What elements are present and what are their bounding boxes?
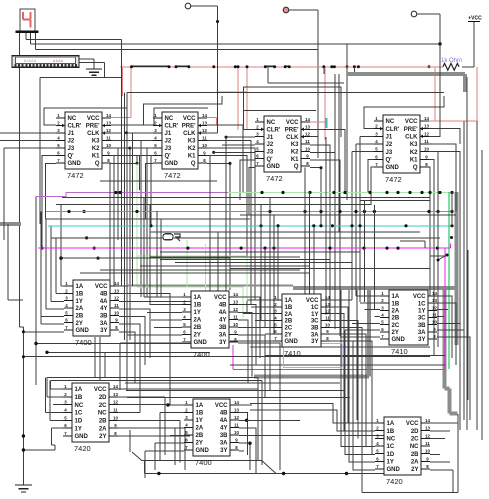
svg-text:14: 14 [114, 281, 119, 286]
wire diagonal a [132, 452, 142, 461]
svg-text:10: 10 [424, 147, 429, 152]
wire U8 lpin [356, 295, 380, 297]
svg-text:2D: 2D [99, 395, 107, 401]
wire U5 3y [119, 332, 135, 383]
svg-text:3A: 3A [100, 321, 108, 327]
wire U11 p4 [341, 290, 375, 447]
svg-text:1B: 1B [196, 411, 204, 417]
wire U11 p6 [349, 290, 375, 462]
wire U5 vcc [119, 285, 128, 287]
svg-text:3B: 3B [100, 314, 108, 320]
svg-text:2D: 2D [411, 429, 419, 435]
svg-text:CLR': CLR' [386, 127, 400, 133]
svg-text:PRE': PRE' [285, 128, 299, 134]
svg-text:12: 12 [233, 307, 238, 312]
wire U5 lpin [23, 331, 64, 333]
wire violet bus [36, 193, 228, 197]
svg-text:13: 13 [432, 298, 437, 303]
svg-text:2Y: 2Y [76, 321, 83, 327]
wire v x40 left box [39, 78, 41, 224]
svg-text:3B: 3B [220, 433, 228, 439]
wire h y270 [100, 269, 300, 271]
svg-text:1Y: 1Y [75, 426, 82, 432]
wire U7 3a [330, 334, 366, 446]
wire U7 lpin [251, 306, 273, 308]
svg-text:2Y: 2Y [392, 330, 399, 336]
wire vmid g [156, 211, 158, 297]
wire v x121 [121, 40, 123, 287]
wire v x51 [50, 226, 52, 301]
wire U3 k2 [310, 152, 335, 329]
svg-text:3Y: 3Y [418, 337, 425, 343]
svg-text:VCC: VCC [214, 295, 227, 301]
wire U8 lpin [374, 316, 380, 318]
svg-text:1B: 1B [194, 303, 202, 309]
junction U10 r6 [248, 442, 251, 445]
wire green vert x187 [186, 240, 188, 287]
svg-text:7420: 7420 [386, 477, 403, 486]
junction y473b [282, 472, 285, 475]
junction magenta x94 [93, 247, 96, 250]
svg-text:1C: 1C [75, 411, 83, 417]
svg-text:1A: 1A [392, 294, 400, 300]
wire drop x347 [346, 44, 348, 200]
svg-text:2A: 2A [285, 312, 293, 318]
svg-text:11: 11 [114, 303, 119, 308]
junction bus [263, 247, 266, 250]
svg-text:14: 14 [432, 291, 437, 296]
wire h y200 [360, 200, 430, 202]
wire U8 3c [437, 316, 444, 318]
wire U7 3b [330, 327, 362, 415]
wire U6 3y2 [238, 335, 265, 397]
nand U11 7420 [375, 417, 430, 486]
svg-text:10: 10 [305, 146, 310, 151]
wire v x360 [359, 136, 361, 302]
svg-text:10: 10 [113, 415, 118, 420]
junction bus [362, 247, 365, 250]
wire vmid i [209, 156, 211, 297]
wire h y77 [40, 77, 122, 79]
svg-text:1B: 1B [387, 429, 395, 435]
svg-text:+VCC: +VCC [468, 16, 482, 22]
svg-text:2C: 2C [411, 437, 419, 443]
svg-text:7410: 7410 [391, 347, 408, 356]
svg-text:4Y: 4Y [219, 318, 226, 324]
wire dip pin b [79, 61, 104, 63]
wire vmid h [160, 219, 162, 297]
wire vmid u [363, 200, 365, 302]
junction bus [368, 191, 371, 194]
flip-flop U3 7472 [255, 116, 310, 183]
svg-text:2A: 2A [411, 460, 419, 466]
wire red drop x238 [237, 67, 239, 130]
junction gnd b [22, 448, 25, 451]
wire vmid v [373, 205, 375, 310]
svg-text:VCC: VCC [405, 119, 418, 125]
junction bus [319, 224, 322, 227]
wire thick vert right [455, 192, 459, 345]
junction T1 [216, 20, 219, 23]
wire U1 clk [111, 132, 122, 134]
wire h y358 [23, 356, 430, 358]
svg-text:7410: 7410 [284, 349, 301, 358]
terminal T1 [185, 3, 191, 9]
svg-text:11: 11 [305, 139, 310, 144]
svg-text:13: 13 [424, 124, 429, 129]
junction bus [135, 210, 138, 213]
junction bus [428, 191, 431, 194]
svg-text:NC: NC [165, 116, 174, 122]
wire U6 lpin [151, 319, 182, 321]
wire v x120 low [119, 343, 121, 390]
wire U6 4y2 [238, 312, 252, 376]
svg-text:1D: 1D [75, 419, 83, 425]
wire U6 lpin [144, 296, 182, 298]
wire v x56 [55, 238, 57, 294]
svg-text:1B: 1B [75, 395, 83, 401]
svg-text:11: 11 [234, 423, 239, 428]
wire U7 1c [330, 307, 348, 423]
svg-text:CLR': CLR' [267, 128, 281, 134]
svg-text:VCC: VCC [406, 421, 419, 427]
junction y352 [45, 351, 48, 354]
wire dip gnd b [103, 62, 105, 77]
wire cyan bus [48, 225, 452, 227]
power VCC [468, 16, 482, 22]
wire U3 clr wrap [244, 87, 341, 137]
wire U11 r1 [430, 422, 458, 424]
wire h y215 [240, 214, 456, 216]
wire U3 k3 [310, 145, 330, 322]
wire U6 3y [238, 343, 280, 470]
svg-text:GND: GND [267, 164, 281, 170]
wire U1 gnd down [45, 163, 56, 219]
wire gnd h2 [23, 449, 55, 451]
svg-text:1C: 1C [418, 301, 426, 307]
junction y473c [345, 472, 348, 475]
wire v x425 [424, 241, 426, 248]
wire magenta low [233, 369, 445, 371]
svg-text:K1: K1 [188, 154, 196, 160]
svg-text:10: 10 [114, 310, 119, 315]
junction y237 [450, 236, 453, 239]
svg-text:1A: 1A [196, 403, 204, 409]
7-segment display U12 [20, 9, 35, 32]
wire U9 r6 [118, 427, 185, 429]
wire thick top right [347, 72, 465, 76]
svg-text:1A: 1A [285, 298, 293, 304]
svg-text:4A: 4A [219, 310, 227, 316]
junction bus [450, 224, 453, 227]
wire U3 j1 [226, 136, 255, 138]
svg-text:CLK: CLK [405, 135, 418, 141]
wire U6 lpin [154, 327, 182, 329]
wire vmid z [466, 77, 468, 430]
wire h y268 [230, 268, 430, 270]
junction red x429 [428, 65, 431, 68]
wire U8 vcc [437, 296, 452, 358]
svg-text:7400: 7400 [193, 350, 210, 359]
junction U2 q [229, 162, 232, 165]
resistor R1 1k [441, 58, 462, 70]
svg-text:12: 12 [424, 131, 429, 136]
svg-text:PRE': PRE' [182, 124, 196, 130]
junction red bus [273, 65, 276, 68]
wire v x180 [179, 420, 181, 462]
wire red drop x122 [122, 67, 124, 96]
junction red bus [264, 65, 267, 68]
junction bus [343, 191, 346, 194]
svg-text:2Y: 2Y [285, 332, 292, 338]
svg-text:2A: 2A [196, 426, 204, 432]
wire U4 k3 [429, 144, 456, 212]
wire vmid x [451, 192, 453, 226]
svg-text:13: 13 [106, 121, 111, 126]
svg-text:2C: 2C [285, 326, 293, 332]
svg-text:10: 10 [425, 449, 430, 454]
wire U1 j2 [0, 139, 56, 141]
wire green h y256 [137, 255, 247, 257]
wire red U2 vcc link [207, 117, 216, 119]
svg-text:4A: 4A [220, 418, 228, 424]
svg-text:11: 11 [425, 441, 430, 446]
svg-text:K3: K3 [188, 139, 196, 145]
wire U2 k3 [207, 140, 251, 305]
svg-text:2A: 2A [194, 318, 202, 324]
wire h y343 through label [36, 343, 204, 345]
nand U7 7410 [273, 294, 330, 358]
wire box7420a top2 [51, 379, 263, 381]
wire U10 p4 [175, 427, 184, 429]
svg-text:3B: 3B [219, 325, 227, 331]
svg-text:J3: J3 [165, 146, 172, 152]
ground G2 [15, 485, 32, 492]
svg-text:13: 13 [305, 124, 310, 129]
svg-text:14: 14 [202, 113, 207, 118]
wire U5 4b [119, 294, 170, 405]
wire v x45 up [45, 377, 47, 412]
wire v x8 [7, 224, 9, 300]
svg-text:7472: 7472 [385, 175, 402, 184]
wire tap c [267, 67, 269, 83]
wire v U5 jog [40, 317, 42, 325]
junction bus [350, 224, 353, 227]
junction bus [450, 191, 453, 194]
svg-text:GND: GND [196, 448, 210, 454]
wire thick stub left [0, 222, 21, 226]
wire U10 r2 [239, 413, 248, 455]
wire vmid aa [476, 121, 478, 430]
svg-text:Q: Q [191, 161, 196, 167]
nand U6 7400 [182, 291, 238, 359]
wire U1 j3 [4, 147, 56, 149]
wire U6 lpin [150, 304, 182, 306]
svg-text:2A: 2A [392, 309, 400, 315]
wire thick thin bus y285 [128, 284, 293, 286]
wire h y258 [61, 257, 230, 259]
wire U8 3y [437, 337, 470, 420]
svg-text:Q': Q' [165, 154, 172, 160]
wire vmid p [277, 226, 279, 300]
svg-text:2C: 2C [392, 323, 400, 329]
wire U1 k1 [111, 156, 151, 226]
wire U10 r3 ext [247, 419, 300, 421]
svg-text:CLR': CLR' [165, 124, 179, 130]
junction red bus [168, 65, 171, 68]
terminal T3 [411, 11, 417, 17]
wire U1 clr wrap [44, 96, 127, 125]
svg-text:GND: GND [165, 161, 179, 167]
svg-text:13: 13 [233, 300, 238, 305]
wire U8 lpin [340, 336, 380, 338]
junction red bus [284, 65, 287, 68]
wire tap b [353, 67, 355, 74]
flip-flop U2 7472 [153, 112, 207, 180]
wire U1 k2 [111, 148, 147, 297]
svg-text:GND: GND [68, 161, 82, 167]
svg-text:13: 13 [202, 121, 207, 126]
wire vmid t [325, 137, 327, 315]
wire v x356 [355, 144, 357, 296]
wire slate bus [46, 211, 452, 213]
svg-text:11: 11 [113, 408, 118, 413]
wire h y266 [140, 265, 310, 267]
junction bus [328, 247, 331, 250]
wire red h y92 [216, 91, 247, 93]
junction bus [67, 210, 70, 213]
svg-text:1B: 1B [76, 292, 84, 298]
wire U9 p6 [51, 427, 63, 429]
junction red bus [333, 65, 336, 68]
svg-text:2B: 2B [196, 433, 204, 439]
wire v x185 [184, 428, 186, 470]
junction red bus [234, 65, 237, 68]
wire left edge vertical x19 [18, 32, 20, 327]
svg-text:J3: J3 [68, 146, 75, 152]
junction red bus [187, 65, 190, 68]
wire U9 p2 [47, 396, 63, 398]
svg-text:14: 14 [425, 418, 430, 423]
svg-text:12: 12 [325, 309, 330, 314]
wire bus y44 [31, 43, 440, 45]
wire T1 drop [217, 6, 219, 50]
svg-text:NC: NC [387, 437, 396, 443]
svg-text:J3: J3 [267, 150, 274, 156]
wire T2 drop to U3 clk [317, 10, 319, 158]
wire U7 vcc [330, 299, 352, 301]
wire v U8 jog [344, 330, 346, 337]
svg-text:GND: GND [194, 340, 208, 346]
svg-text:Q: Q [413, 165, 418, 171]
svg-text:NC: NC [98, 411, 107, 417]
wire vmid e [143, 198, 145, 298]
svg-text:J1: J1 [165, 131, 172, 137]
wire black over red [176, 65, 189, 67]
wire U6 3a2 [238, 328, 270, 391]
wire vmid m [264, 248, 266, 327]
wire red drop U3 vcc [324, 67, 326, 140]
wire box7420b bottom [362, 491, 458, 493]
junction slate x84 [83, 210, 86, 213]
svg-text:2Y: 2Y [196, 441, 203, 447]
wire vmid o [273, 215, 275, 334]
junction bus [308, 191, 311, 194]
wire U5 lpin [41, 316, 64, 318]
svg-text:3A: 3A [311, 332, 319, 338]
wire U5 lpin [51, 300, 64, 302]
junction bus [186, 247, 189, 250]
junction U3 q [320, 166, 323, 169]
svg-text:2A: 2A [76, 306, 84, 312]
svg-text:K3: K3 [92, 139, 100, 145]
wire vmid n [269, 198, 271, 327]
svg-text:K2: K2 [188, 146, 196, 152]
svg-text:3C: 3C [418, 316, 426, 322]
junction red bus [130, 65, 133, 68]
wire U6 4b [238, 305, 256, 365]
junction bus [319, 210, 322, 213]
svg-text:K1: K1 [92, 154, 100, 160]
svg-text:10: 10 [233, 322, 238, 327]
junction bus [396, 247, 399, 250]
wire U2 clr wrap [144, 96, 223, 125]
svg-text:12: 12 [425, 433, 430, 438]
junction bus [268, 210, 271, 213]
wire h y240 [400, 240, 425, 242]
wire h y197 [62, 197, 430, 199]
wire U2 j1 [127, 132, 154, 134]
wire black over red [132, 65, 170, 67]
svg-text:4Y: 4Y [100, 306, 107, 312]
svg-text:3B: 3B [311, 326, 319, 332]
junction red bus [237, 65, 240, 68]
wire v x468 [467, 250, 469, 400]
junction diag b [446, 254, 449, 257]
wire h y365 [230, 364, 445, 366]
svg-text:14: 14 [106, 113, 111, 118]
wire U8 lpin [352, 322, 380, 324]
wire thick elbow b [450, 412, 458, 416]
wire U1 k3 [111, 140, 141, 297]
wire U7 lpin [243, 313, 273, 315]
junction bus [408, 191, 411, 194]
wire green vert x205 [205, 244, 207, 301]
wire U7 1y [330, 314, 344, 431]
svg-text:PRE': PRE' [404, 127, 418, 133]
wire through 7400 label [142, 460, 262, 462]
wire U3 j3 [214, 151, 255, 153]
svg-text:1Y: 1Y [76, 299, 83, 305]
svg-text:3Y: 3Y [219, 340, 226, 346]
svg-text:Q': Q' [68, 154, 75, 160]
wire U9 r2 [118, 396, 165, 398]
wire U1 j1 [0, 132, 56, 134]
wire v x127 [126, 93, 128, 391]
wire vmid c [117, 148, 119, 240]
svg-text:NC: NC [386, 119, 395, 125]
svg-text:4B: 4B [219, 303, 227, 309]
svg-text:12: 12 [114, 296, 119, 301]
svg-text:NC: NC [75, 403, 84, 409]
svg-text:3C: 3C [311, 319, 319, 325]
wire from T2 [289, 9, 319, 11]
flip-flop U4 7472 [374, 115, 429, 184]
wire magenta stub [232, 345, 234, 370]
junction bus [149, 224, 152, 227]
wire green h y287 [137, 286, 243, 288]
svg-text:VCC: VCC [183, 116, 196, 122]
